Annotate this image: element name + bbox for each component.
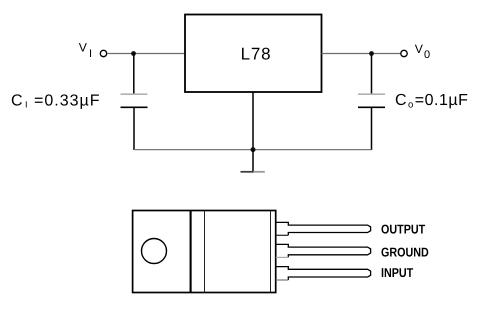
wire regulator ground pin down xyxy=(252,92,254,150)
wire regulator to output xyxy=(322,53,401,55)
package divider thin xyxy=(204,211,206,293)
svg-text:GROUND: GROUND xyxy=(381,245,429,260)
package tab/body divider thick xyxy=(190,211,192,293)
wire junction down to CI xyxy=(133,54,135,95)
svg-text:C: C xyxy=(11,92,24,109)
ground rail wire xyxy=(134,149,372,151)
regulator U1 box xyxy=(185,15,322,93)
svg-text:o: o xyxy=(408,100,413,111)
junction output node xyxy=(369,51,374,56)
svg-text:I: I xyxy=(89,48,92,60)
wire CO to ground rail xyxy=(371,107,373,150)
svg-text:=0.33µF: =0.33µF xyxy=(34,92,100,109)
svg-text:V: V xyxy=(79,41,88,55)
svg-text:I: I xyxy=(25,100,28,110)
package right inner line xyxy=(270,211,272,293)
package mounting hole xyxy=(142,239,167,264)
junction input node xyxy=(131,51,136,56)
wire to ground symbol xyxy=(252,150,254,172)
wire junction down to CO xyxy=(371,54,373,95)
junction ground node xyxy=(251,147,256,152)
ground xyxy=(241,171,254,173)
capacitor CO xyxy=(358,93,385,95)
wire input to regulator xyxy=(107,53,185,55)
pin 2 ground xyxy=(276,244,371,257)
svg-text:=0.1µF: =0.1µF xyxy=(415,92,469,109)
svg-text:L78: L78 xyxy=(241,44,272,63)
svg-text:INPUT: INPUT xyxy=(381,265,413,280)
svg-text:OUTPUT: OUTPUT xyxy=(381,222,425,237)
pin 1 output xyxy=(276,222,371,235)
output terminal circle xyxy=(401,50,407,56)
capacitor CI xyxy=(121,93,148,95)
wire CI to ground rail xyxy=(133,107,135,150)
svg-text:C: C xyxy=(395,92,408,109)
svg-text:0: 0 xyxy=(424,49,430,61)
package TO-220 outline xyxy=(133,211,276,293)
svg-text:V: V xyxy=(415,42,424,56)
input terminal circle xyxy=(100,50,106,56)
pin 3 input xyxy=(276,267,371,280)
